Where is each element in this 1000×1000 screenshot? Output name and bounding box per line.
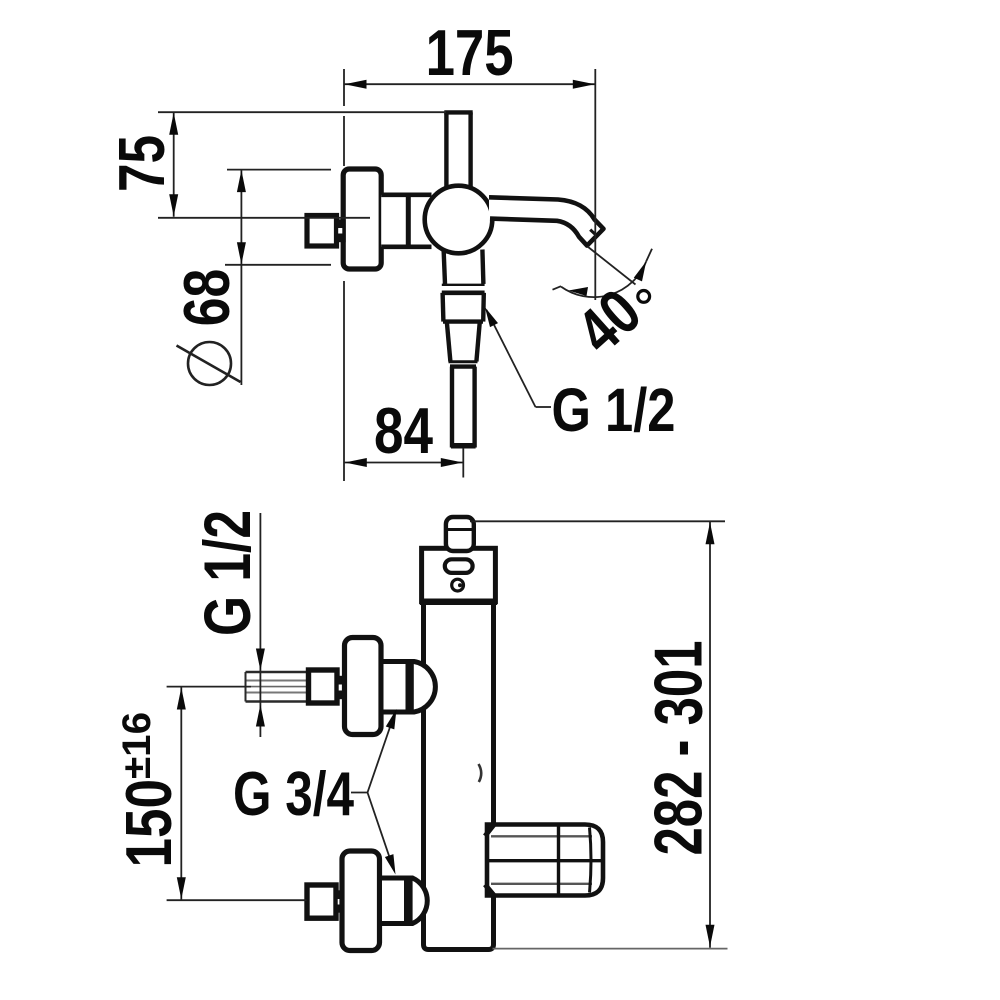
dimension 75 (left, vertical) (158, 112, 446, 218)
top inlet nut (front view) (309, 670, 338, 703)
lever handle (front view) (485, 824, 603, 896)
head/body divider line (420, 599, 497, 606)
40 degree angle dimension (553, 247, 653, 298)
top inlet stem G1/2 (front view) (246, 672, 309, 702)
svg-text:282 - 301: 282 - 301 (641, 641, 717, 856)
outlet pipe below mixer ball (top view) (442, 250, 485, 448)
wall nut (top view) (307, 216, 337, 247)
decorative curve mark on body (479, 764, 482, 782)
main body (front view) (424, 601, 494, 950)
bottom inlet dome cap (front view) (408, 878, 427, 924)
label G 1/2 (front view inlet) with leader and arrows (259, 513, 261, 737)
slot detail on head (445, 559, 473, 573)
svg-text:G 3/4: G 3/4 (233, 760, 354, 829)
spout (top view, bends 40 degrees) (489, 197, 604, 245)
thread step between nut and flange (top view) (337, 221, 345, 241)
screw detail on head (452, 579, 464, 591)
top inlet dome cap (front view) (410, 662, 436, 713)
label G 3/4 with two leaders (351, 714, 395, 869)
dimension 150 +/-16 (left, vertical) (167, 687, 307, 901)
dimension 175 (top) (344, 69, 595, 481)
wall flange (top view) (343, 169, 381, 269)
top inlet flange (front view) (345, 638, 382, 735)
svg-text:75: 75 (105, 135, 178, 192)
label G 1/2 (top view outlet) with leader (487, 310, 552, 407)
svg-text:68: 68 (170, 269, 243, 327)
top inlet connector (front view) (381, 662, 408, 713)
connector between flange and mixer ball (top view) (381, 195, 431, 247)
svg-text:G 1/2: G 1/2 (552, 376, 676, 444)
bottom inlet thread step (336, 892, 343, 911)
bottom inlet nut (front view) (307, 885, 336, 918)
svg-text:175: 175 (426, 16, 514, 89)
top outlet stub G1/2 (front view) (446, 517, 474, 551)
dimension 282-301 (right, vertical) (470, 521, 725, 948)
head section (front view) (422, 548, 496, 601)
bottom inlet connector (front view) (380, 878, 407, 924)
mixer ball (top view circle) (425, 186, 493, 254)
dimension 84 (bottom of top view) (344, 448, 463, 478)
top inlet thread step (337, 678, 345, 698)
svg-text:G 1/2: G 1/2 (190, 510, 264, 636)
top inlet pipe stub (vertical, above mixer ball) (444, 112, 472, 190)
bottom inlet flange (front view) (342, 851, 380, 951)
dimension 68 (flange diameter) (225, 170, 331, 385)
svg-text:84: 84 (374, 394, 433, 467)
diameter symbol for 68 (177, 342, 241, 385)
